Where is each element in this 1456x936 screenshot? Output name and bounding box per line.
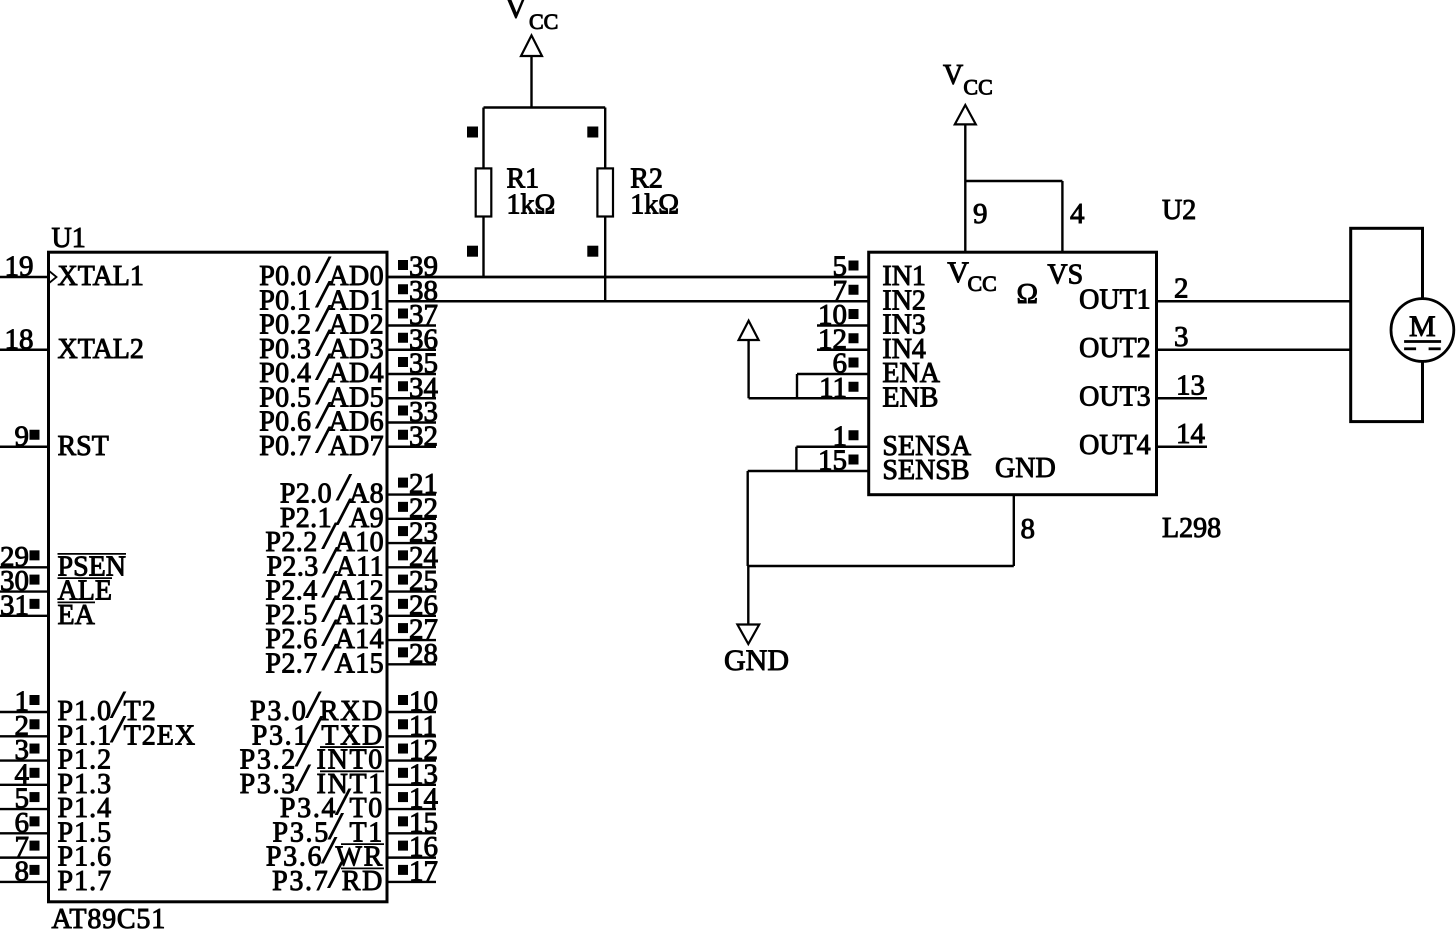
U1 pin 14 P3.4/T0 wire [387, 783, 439, 815]
U1 pin label P0.6 /AD6 [259, 395, 384, 438]
U1 pin 5 P1.4 wire [0, 783, 49, 815]
U1 pin 2 P1.1/T2EX wire [0, 710, 49, 742]
U1 reference designator label [52, 223, 86, 254]
svg-text:2: 2 [1174, 272, 1189, 304]
motor M1 circle symbol [1391, 299, 1454, 362]
U1 pin label P0.1 /AD1 [259, 273, 384, 316]
U2 pin 12 IN4 wire [817, 323, 869, 355]
U1 pin 11 P3.1/TXD wire [387, 710, 437, 742]
svg-text:32: 32 [409, 420, 438, 452]
svg-text:OUT4: OUT4 [1079, 430, 1151, 461]
U1 pin 22 P2.1 /A9 wire [387, 492, 438, 524]
svg-text:1kΩ: 1kΩ [507, 190, 556, 221]
U1 pin label P1.6 [58, 842, 113, 873]
U1 pin 24 P2.3 /A11 wire [387, 541, 439, 573]
U1 pin 10 P3.0/RXD wire [387, 686, 438, 718]
U2 pin label IN4 [882, 334, 926, 365]
U1 pin 18 XTAL2 wire [0, 323, 49, 355]
U1 pin label EA [58, 600, 96, 631]
VCC power symbol above resistors [521, 35, 542, 107]
U1 pin 37 P0.2 /AD2 wire [387, 299, 438, 331]
svg-text:8: 8 [15, 855, 30, 887]
U1 pin label XTAL1 [58, 261, 144, 292]
resistor R2 value label [630, 163, 679, 220]
VCC label above U2 [943, 60, 993, 100]
svg-text:GND: GND [995, 453, 1056, 484]
U1 pin 9 RST wire [0, 420, 49, 452]
svg-text:AT89C51: AT89C51 [52, 904, 167, 931]
svg-text:18: 18 [5, 323, 34, 355]
U1 pin label P3.1/TXD [252, 708, 384, 751]
U1 pin 28 P2.7 /A15 wire [387, 638, 438, 670]
U1 pin 36 P0.3 /AD3 wire [387, 323, 438, 355]
U1 pin 15 P3.5/ T1 wire [387, 807, 438, 839]
wire SENSA to SENSB junction [795, 447, 797, 471]
U1 pin label P3.3/ INT1 [240, 757, 384, 800]
U1 pin label P2.4 /A12 [265, 564, 384, 607]
GND symbol [737, 566, 759, 644]
svg-text:CC: CC [963, 75, 992, 100]
U1 pin 23 P2.2 /A10 wire [387, 517, 438, 549]
U1 pin label P3.2/ INT0 [240, 733, 384, 776]
svg-text:31: 31 [0, 589, 29, 621]
GND label [724, 644, 789, 677]
U2 VCC pin name inside box [947, 256, 997, 296]
svg-text:9: 9 [973, 198, 988, 230]
U2 pin 7 IN2 wire [387, 275, 869, 307]
node square top of R2 [587, 127, 598, 138]
U1 pin 19 XTAL1 wire [0, 251, 49, 283]
U1 pin label P0.2 /AD2 [259, 298, 384, 341]
U2 GND pin name inside box [995, 453, 1056, 484]
U2 pin label OUT4 [1079, 430, 1151, 461]
U1 pin 33 P0.6 /AD6 wire [387, 396, 438, 428]
svg-text:XTAL1: XTAL1 [58, 261, 144, 292]
svg-text:13: 13 [1176, 369, 1205, 401]
svg-text:CC: CC [968, 271, 997, 296]
U2 pin 1 SENSA wire [796, 420, 868, 452]
VCC power symbol above U2 [955, 105, 976, 181]
U1 pin 21 P2.0 /A8 wire [387, 468, 438, 500]
U2 pin label SENSA [882, 431, 971, 462]
U1 pin label P1.0/T2 [58, 684, 157, 727]
U1 pin label P0.4 /AD4 [259, 346, 384, 389]
U1 pin 12 P3.2/ INT0 wire [387, 734, 438, 766]
U1 pin label P0.7 /AD7 [259, 419, 384, 462]
svg-text:L298: L298 [1162, 513, 1221, 544]
U1 XTAL1 clock input triangle [49, 271, 57, 284]
U2 pin 6 ENA wire [797, 348, 869, 380]
U2 pin label ENB [882, 382, 938, 413]
svg-text:P1.7: P1.7 [58, 866, 113, 897]
wire SENSB net down to GND [747, 471, 749, 566]
U1 pin label P1.3 [58, 769, 113, 800]
U1 pin 39 P0.0 /AD0 wire [387, 251, 869, 283]
svg-text:M: M [1409, 310, 1436, 343]
svg-text:4: 4 [1070, 198, 1085, 230]
U1 pin 26 P2.5 /A13 wire [387, 589, 438, 621]
U1 pin label XTAL2 [58, 334, 144, 365]
U1 pin label P0.0 /AD0 [259, 249, 384, 292]
svg-text:U1: U1 [52, 223, 86, 254]
svg-text:28: 28 [409, 638, 438, 670]
svg-text:U2: U2 [1162, 195, 1196, 226]
U2 pin label IN2 [882, 285, 926, 316]
resistor R2 body and leads [597, 108, 613, 302]
svg-text:RST: RST [58, 431, 109, 462]
svg-text:15: 15 [818, 445, 847, 477]
resistor R1 value label [507, 163, 556, 220]
svg-text:OUT2: OUT2 [1079, 333, 1151, 364]
U1 pin 34 P0.5 /AD5 wire [387, 372, 439, 404]
U2 pin label OUT3 [1079, 381, 1151, 412]
node square bottom of R1 [467, 246, 478, 257]
U1 pin 17 P3.7/RD wire [387, 855, 438, 887]
U2 pin label IN3 [882, 310, 926, 341]
U1 pin label P1.7 [58, 866, 113, 897]
U1 pin 35 P0.4 /AD4 wire [387, 348, 438, 380]
svg-text:1kΩ: 1kΩ [630, 190, 679, 221]
svg-text:XTAL2: XTAL2 [58, 334, 144, 365]
motor frame rectangle [1351, 228, 1423, 421]
U1 pin label P3.5/ T1 [273, 805, 384, 848]
U1 pin 4 P1.3 wire [0, 758, 49, 790]
svg-text:OUT3: OUT3 [1079, 381, 1151, 412]
U2 pin 4 VS top wire [965, 181, 1085, 252]
node square top of R1 [467, 127, 478, 138]
svg-text:VS: VS [1047, 260, 1083, 291]
U1 pin 8 P1.7 wire [0, 855, 49, 887]
svg-text:19: 19 [5, 251, 34, 283]
U1 pin 27 P2.6 /A14 wire [387, 614, 438, 646]
U2 part value label L298 [1162, 513, 1221, 544]
svg-text:CC: CC [529, 9, 558, 34]
U2 pin 10 IN3 wire [817, 299, 869, 331]
U2 pin 14 OUT4 wire [1157, 418, 1208, 450]
U1 pin label P3.4/T0 [280, 781, 384, 824]
U1 pin 38 P0.1 /AD1 wire [387, 275, 869, 307]
svg-text:Ω: Ω [1017, 278, 1039, 310]
U2 reference designator label [1162, 195, 1196, 226]
U2 pin 9 VCC top wire [965, 181, 987, 252]
svg-text:3: 3 [1174, 321, 1189, 353]
U1 pin label P3.6/WR [266, 830, 384, 873]
U1 pin label P1.2 [58, 745, 113, 776]
U2 VS pin name inside box [1047, 260, 1083, 291]
U2 pin 11 ENB wire [749, 372, 869, 404]
svg-text:EA: EA [58, 600, 96, 631]
U2 pin 2 OUT1 wire [1157, 272, 1351, 304]
U1 pin label P2.7 /A15 [265, 636, 384, 679]
U1 pin label P1.4 [58, 793, 113, 824]
U1 pin label P2.2 /A10 [265, 515, 384, 558]
U2 pin 13 OUT3 wire [1157, 369, 1208, 401]
U2 stray omega mark [1017, 278, 1039, 310]
svg-text:V: V [943, 60, 963, 91]
U1 pin 30 ALE wire [0, 565, 49, 597]
svg-text:9: 9 [15, 420, 30, 452]
U1 pin 6 P1.5 wire [0, 807, 49, 839]
IC U2 L298 body [869, 252, 1157, 495]
IC U1 AT89C51 body [49, 252, 388, 902]
U1 pin label P3.7/RD [272, 854, 384, 897]
svg-text:17: 17 [409, 855, 438, 887]
resistor R1 body and leads [476, 108, 492, 278]
U2 pin 8 GND wire [748, 495, 1035, 566]
U1 pin 16 P3.6/WR wire [387, 831, 438, 863]
svg-text:11: 11 [819, 372, 847, 404]
svg-text:SENSB: SENSB [882, 455, 969, 486]
U1 pin label P3.0/RXD [250, 684, 384, 727]
U1 pin 25 P2.4 /A12 wire [387, 565, 438, 597]
node square bottom of R2 [587, 246, 598, 257]
U1 pin label ALE [58, 576, 113, 607]
svg-text:8: 8 [1021, 513, 1036, 545]
svg-text:V: V [947, 256, 969, 289]
svg-text:V: V [505, 0, 527, 25]
U1 pin 1 P1.0/T2 wire [0, 686, 49, 718]
U2 pin 3 OUT2 wire [1157, 321, 1351, 353]
U2 pin label IN1 [882, 261, 926, 292]
U1 pin 29 PSEN wire [0, 541, 49, 573]
svg-text:14: 14 [1176, 418, 1206, 450]
U2 pin 15 SENSB wire [748, 445, 869, 477]
U1 pin label RST [58, 431, 109, 462]
U1 pin label PSEN [58, 551, 127, 582]
U1 pin label P2.1 /A9 [280, 491, 384, 534]
U1 pin 7 P1.6 wire [0, 831, 49, 863]
U1 pin label P2.5 /A13 [265, 588, 384, 631]
U1 part value label AT89C51 [52, 904, 167, 935]
U2 pin 5 IN1 wire [387, 251, 869, 283]
svg-text:OUT1: OUT1 [1079, 284, 1151, 315]
U1 pin 31 EA wire [0, 589, 49, 621]
U2 pin label ENA [882, 358, 940, 389]
svg-text:GND: GND [724, 644, 789, 677]
VCC label above resistors [505, 0, 558, 34]
U1 pin label P1.5 [58, 817, 113, 848]
wire top bar joining R1 and R2 to VCC [484, 106, 606, 108]
VCC pull-up arrow for ENB net [739, 321, 759, 399]
U2 pin label SENSB [882, 455, 969, 486]
U2 pin label OUT2 [1079, 333, 1151, 364]
U1 pin 13 P3.3/ INT1 wire [387, 758, 438, 790]
U1 pin label P0.3 /AD3 [259, 322, 384, 365]
wire ENA to ENB junction [796, 374, 798, 398]
U1 pin label P2.0 /A8 [280, 467, 384, 510]
U1 pin 32 P0.7 /AD7 wire [387, 420, 438, 452]
U1 pin label P2.3 /A11 [266, 539, 384, 582]
U1 pin 3 P1.2 wire [0, 734, 49, 766]
U2 pin label OUT1 [1079, 284, 1151, 315]
U1 pin label P2.6 /A14 [265, 612, 384, 655]
U1 pin label P0.5 /AD5 [259, 370, 384, 413]
svg-text:ENB: ENB [882, 382, 938, 413]
U1 pin label P1.1/T2EX [58, 708, 197, 751]
